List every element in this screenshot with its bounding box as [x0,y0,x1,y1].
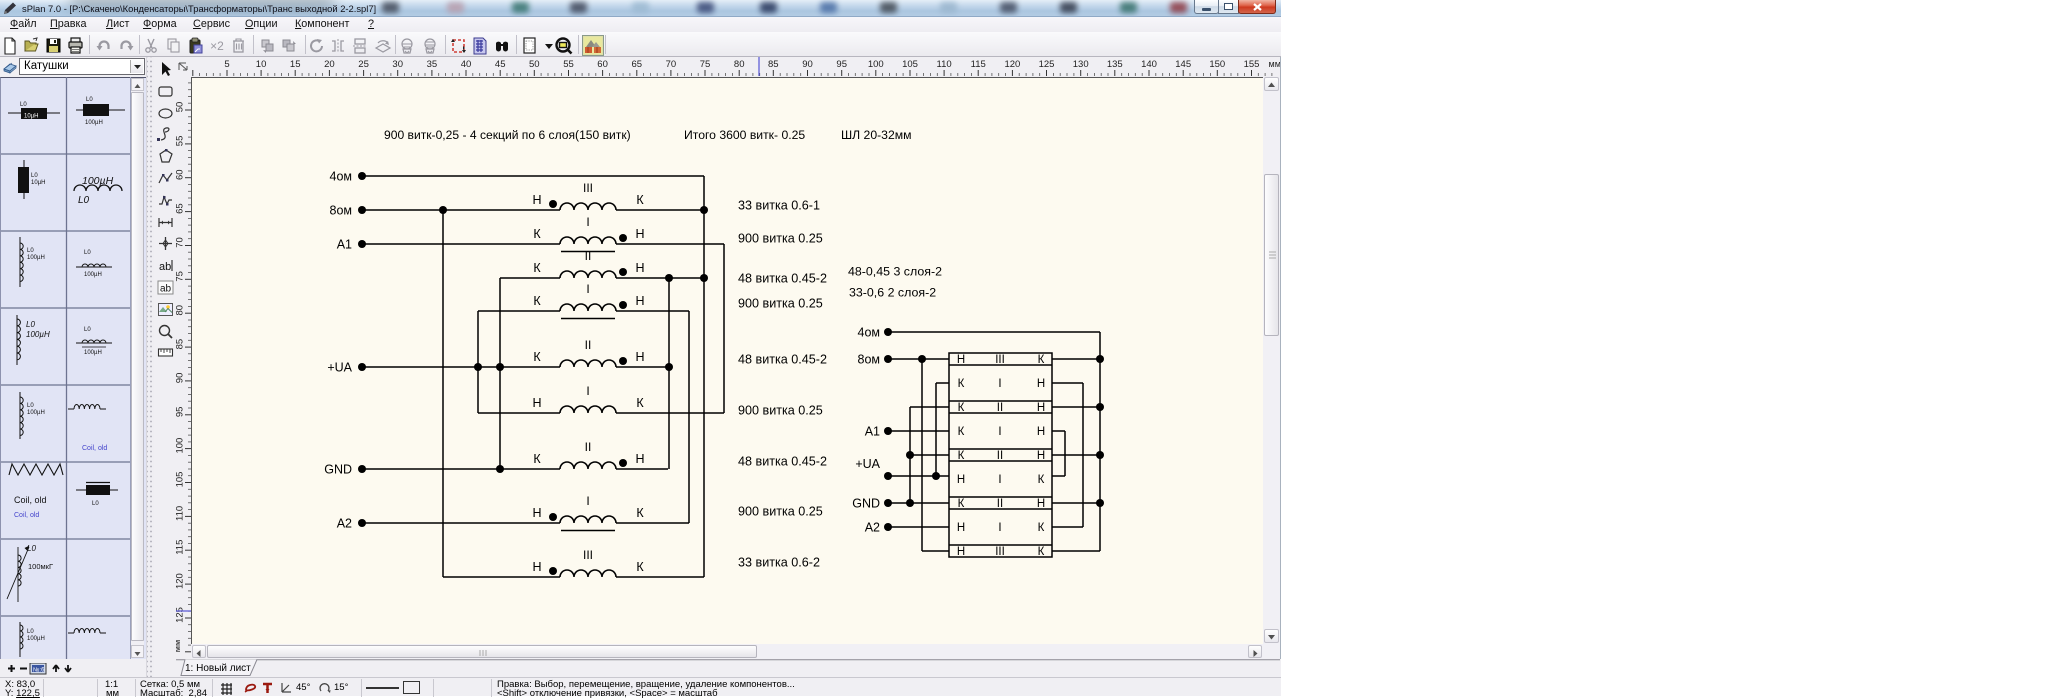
svg-text:900 витка 0.25: 900 витка 0.25 [738,505,823,519]
svg-text:GND: GND [852,497,880,511]
svg-text:+UА: +UА [327,361,352,375]
svg-text:×2: ×2 [210,39,224,53]
svg-text:30: 30 [392,59,403,70]
svg-text:К: К [636,506,644,520]
svg-text:К: К [533,227,541,241]
svg-text:45: 45 [495,59,506,70]
svg-text:4ом: 4ом [330,170,353,184]
svg-text:40: 40 [461,59,472,70]
svg-text:Coil, old: Coil, old [14,495,47,505]
svg-text:Н: Н [635,294,644,308]
svg-text:I: I [998,522,1001,534]
svg-text:А1: А1 [337,238,352,252]
svg-text:75: 75 [700,59,711,70]
svg-text:105: 105 [176,472,186,488]
svg-text:К: К [1038,522,1045,534]
svg-text:100µH: 100µH [27,255,45,261]
svg-text:50: 50 [176,102,186,113]
svg-text:L0: L0 [20,102,27,108]
svg-text:100: 100 [868,59,884,70]
svg-text:90: 90 [802,59,813,70]
svg-text:95: 95 [836,59,847,70]
svg-text:70: 70 [176,237,186,248]
svg-text:110: 110 [176,506,186,521]
svg-text:К: К [1038,474,1045,486]
svg-text:48 витка 0.45-2: 48 витка 0.45-2 [738,455,827,469]
svg-text:Н: Н [635,227,644,241]
svg-text:33 витка 0.6-1: 33 витка 0.6-1 [738,199,820,213]
svg-text:10µH: 10µH [24,114,38,120]
svg-text:Coil, old: Coil, old [82,445,107,452]
svg-text:115: 115 [971,59,986,70]
svg-text:100µH: 100µH [27,410,45,416]
svg-text:К: К [636,193,644,207]
svg-text:№:6: №:6 [33,667,45,674]
svg-text:85: 85 [176,339,186,350]
svg-text:48 витка 0.45-2: 48 витка 0.45-2 [738,353,827,367]
svg-text:II: II [997,450,1003,462]
svg-text:20: 20 [324,59,335,70]
svg-text:70: 70 [666,59,677,70]
svg-text:80: 80 [176,305,186,316]
svg-text:Итого 3600 витк- 0.25: Итого 3600 витк- 0.25 [684,128,805,142]
svg-text:145: 145 [1175,59,1191,70]
svg-text:К: К [958,450,965,462]
svg-text:Н: Н [635,350,644,364]
svg-text:L0: L0 [92,501,99,507]
svg-text:Н: Н [532,396,541,410]
svg-text:Н: Н [1037,498,1045,510]
svg-text:К: К [533,452,541,466]
svg-text:I: I [586,215,589,229]
svg-text:60: 60 [176,169,186,180]
svg-text:100µH: 100µH [85,120,103,126]
svg-text:I: I [586,282,589,296]
svg-text:25: 25 [358,59,369,70]
svg-text:55: 55 [563,59,574,70]
svg-text:1: Новый лист: 1: Новый лист [185,663,251,674]
svg-text:80: 80 [734,59,745,70]
svg-text:15: 15 [290,59,301,70]
svg-text:I: I [586,384,589,398]
svg-text:I: I [998,426,1001,438]
svg-text:120: 120 [1004,59,1020,70]
svg-text:100мкГ: 100мкГ [28,562,53,571]
svg-text:L0: L0 [27,403,34,409]
svg-text:10: 10 [256,59,267,70]
svg-text:130: 130 [1073,59,1089,70]
svg-text:90: 90 [176,373,186,384]
svg-text:К: К [958,402,965,414]
svg-text:Н: Н [957,354,965,366]
svg-text:5: 5 [224,59,229,70]
svg-text:ab: ab [159,261,171,273]
svg-text:100: 100 [176,438,186,454]
svg-text:110: 110 [937,59,952,70]
svg-text:L0: L0 [31,173,38,179]
svg-text:II: II [585,440,592,454]
svg-text:К: К [636,396,644,410]
svg-text:48-0,45 3 слоя-2: 48-0,45 3 слоя-2 [848,265,942,279]
svg-text:100µH: 100µH [82,175,114,187]
svg-text:А2: А2 [337,517,352,531]
svg-text:Н: Н [532,560,541,574]
svg-text:100µH: 100µH [27,636,45,642]
svg-text:I: I [998,474,1001,486]
svg-text:8ом: 8ом [858,353,881,367]
svg-text:35: 35 [427,59,438,70]
svg-text:L0: L0 [86,97,93,103]
svg-text:50: 50 [529,59,540,70]
svg-text:III: III [995,546,1005,558]
svg-text:К: К [958,498,965,510]
svg-text:К: К [1038,546,1045,558]
svg-text:4ом: 4ом [858,326,881,340]
svg-text:900 витк-0,25 - 4 секций по 6: 900 витк-0,25 - 4 секций по 6 слоя(150 в… [384,128,631,142]
svg-text:III: III [995,354,1005,366]
svg-text:GND: GND [324,463,352,477]
svg-text:Н: Н [532,193,541,207]
svg-text:155: 155 [1244,59,1260,70]
svg-text:III: III [583,181,593,195]
svg-text:65: 65 [176,203,186,214]
svg-text:II: II [585,249,592,263]
svg-text:95: 95 [176,407,186,418]
svg-text:33 витка 0.6-2: 33 витка 0.6-2 [738,556,820,570]
svg-text:I: I [998,378,1001,390]
svg-text:125: 125 [176,607,186,623]
svg-text:100µH: 100µH [26,330,50,339]
svg-text:140: 140 [1141,59,1157,70]
svg-text:75: 75 [176,271,186,282]
svg-text:55: 55 [176,136,186,147]
svg-text:К: К [1038,354,1045,366]
svg-text:120: 120 [176,573,186,589]
svg-text:85: 85 [768,59,779,70]
svg-text:135: 135 [1107,59,1123,70]
svg-text:мм: мм [1269,59,1281,69]
svg-text:+UА: +UА [855,457,880,471]
svg-text:Н: Н [1037,450,1045,462]
svg-text:65: 65 [632,59,643,70]
svg-text:мм: мм [176,640,182,652]
svg-text:Н: Н [1037,378,1045,390]
svg-text:Н: Н [957,546,965,558]
svg-text:К: К [636,560,644,574]
svg-text:10µH: 10µH [31,180,45,186]
svg-text:Н: Н [957,474,965,486]
svg-text:Н: Н [635,261,644,275]
svg-text:К: К [533,261,541,275]
svg-text:I: I [586,494,589,508]
svg-text:II: II [585,338,592,352]
svg-text:L0: L0 [26,320,35,329]
svg-text:ШЛ 20-32мм: ШЛ 20-32мм [841,128,911,142]
svg-text:К: К [533,294,541,308]
svg-text:II: II [997,402,1003,414]
svg-text:Н: Н [1037,402,1045,414]
svg-text:115: 115 [176,540,186,555]
svg-text:60: 60 [597,59,608,70]
svg-text:К: К [958,426,965,438]
svg-text:L0: L0 [27,629,34,635]
svg-text:8ом: 8ом [330,204,353,218]
svg-text:А1: А1 [865,425,880,439]
svg-text:Н: Н [957,522,965,534]
svg-text:105: 105 [902,59,918,70]
svg-text:Н: Н [635,452,644,466]
svg-text:900 витка 0.25: 900 витка 0.25 [738,404,823,418]
svg-text:L0: L0 [84,327,91,333]
svg-text:48 витка 0.45-2: 48 витка 0.45-2 [738,272,827,286]
svg-text:К: К [533,350,541,364]
svg-text:33-0,6 2 слоя-2: 33-0,6 2 слоя-2 [849,286,936,300]
svg-text:Н: Н [532,506,541,520]
svg-text:К: К [958,378,965,390]
svg-text:L0: L0 [27,248,34,254]
svg-text:L0: L0 [84,250,91,256]
svg-text:900 витка 0.25: 900 витка 0.25 [738,297,823,311]
svg-text:100µH: 100µH [84,272,102,278]
svg-text:II: II [997,498,1003,510]
svg-text:125: 125 [1039,59,1055,70]
svg-text:100µH: 100µH [84,350,102,356]
svg-text:900 витка 0.25: 900 витка 0.25 [738,232,823,246]
svg-text:Coil, old: Coil, old [14,512,39,519]
svg-text:А2: А2 [865,521,880,535]
svg-text:Н: Н [1037,426,1045,438]
svg-text:III: III [583,548,593,562]
svg-text:L0: L0 [78,195,90,206]
svg-text:ab: ab [160,284,172,295]
svg-text:150: 150 [1209,59,1225,70]
